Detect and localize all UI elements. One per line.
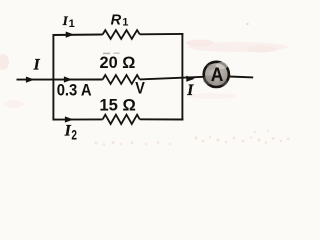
svg-text:0.3 A: 0.3 A <box>57 81 92 99</box>
arrow I2 on bottom wire <box>65 116 74 122</box>
svg-text:1: 1 <box>122 17 128 29</box>
wire: right of ammeter <box>229 76 253 79</box>
wire: top branch left segment <box>53 34 103 37</box>
svg-text:R: R <box>111 12 122 28</box>
svg-text:15 Ω: 15 Ω <box>99 97 135 115</box>
ammeter A <box>204 62 229 87</box>
paper background <box>0 0 295 149</box>
wire: middle branch from left edge <box>17 79 103 81</box>
svg-text:V: V <box>135 79 145 98</box>
wire: middle branch to ammeter <box>140 77 204 80</box>
arrow after left rail <box>64 76 73 82</box>
arrow I1 on top wire <box>66 32 75 38</box>
svg-text:I: I <box>186 82 194 99</box>
resistor 20 ohm zigzag <box>103 75 140 84</box>
wire: bottom branch right segment <box>140 118 184 120</box>
resistor 15 ohm zigzag <box>103 115 140 124</box>
svg-text:A: A <box>211 65 224 86</box>
wire: bottom branch left segment <box>53 118 103 120</box>
svg-text:1: 1 <box>69 18 75 30</box>
svg-text:20 Ω: 20 Ω <box>100 54 136 72</box>
svg-text:2: 2 <box>71 128 77 143</box>
arrow after right rail <box>186 76 195 82</box>
wire: left rail <box>52 34 54 120</box>
resistor R1 zigzag <box>103 30 140 39</box>
wire: right rail <box>181 33 183 120</box>
wire: top branch right segment <box>140 33 184 35</box>
arrow I on incoming wire <box>26 77 35 83</box>
svg-text:I: I <box>33 56 41 73</box>
scan artifact dashes above 20 <box>103 53 110 55</box>
